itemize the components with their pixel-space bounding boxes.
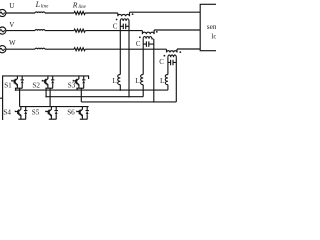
switch S3 IGBT: [73, 76, 79, 88]
wire T1 primary right down: [128, 21, 130, 97]
svg-text:R: R: [72, 0, 78, 9]
switch S6 diode: [86, 107, 89, 120]
resistor Rline V: [74, 29, 85, 32]
inductor L2: [141, 75, 144, 85]
capacitor C3 leads: [168, 61, 176, 63]
inductor L3: [165, 75, 168, 85]
S2 cell bottom wire: [45, 87, 53, 89]
switch S2 diode: [51, 76, 54, 88]
AC source V: [0, 27, 6, 34]
T2 secondary dot: [156, 31, 158, 33]
wire T3 to load box: [177, 48, 200, 50]
inductor Lline W: [35, 48, 45, 49]
capacitor C3 plates: [171, 60, 173, 65]
S4 cell bottom wire: [18, 118, 26, 120]
svg-text:L: L: [135, 76, 140, 85]
svg-text:S4: S4: [3, 108, 11, 116]
capacitor C2 leads: [143, 43, 154, 45]
wire T1 primary left down: [119, 21, 121, 75]
wire T2 to load box: [154, 29, 200, 31]
wire W to transformer T3: [85, 48, 166, 50]
svg-text:line: line: [78, 5, 86, 10]
transformer T1 primary winding: [120, 19, 129, 21]
svg-text:L: L: [112, 76, 117, 85]
S1 cell bottom wire: [15, 87, 23, 89]
svg-text:S6: S6: [67, 108, 75, 116]
S3 drop to bus3: [80, 88, 82, 102]
inductor L1: [118, 75, 121, 85]
resistor Rline W: [74, 48, 85, 51]
switch S5 diode: [55, 107, 58, 120]
wire T3 primary left down: [167, 57, 169, 74]
wire: [45, 12, 74, 14]
stub left edge: [0, 97, 3, 99]
S6 cell bottom wire: [80, 118, 88, 120]
bus3: [81, 101, 176, 103]
switch S5 IGBT: [46, 107, 52, 120]
transformer T2 primary winding: [143, 37, 153, 39]
S3 stub to bus1: [76, 88, 78, 90]
svg-text:S2: S2: [32, 81, 40, 89]
transformer T3 primary winding: [168, 55, 176, 57]
transformer T1 series winding: [118, 12, 130, 16]
switch S1 IGBT: [12, 76, 18, 88]
wire: [45, 30, 74, 32]
wire U source to Lline: [6, 12, 35, 14]
T1 secondary dot: [132, 13, 134, 15]
AC source W: [0, 46, 6, 53]
S2 stub to bus2: [45, 88, 47, 97]
svg-text:U: U: [9, 2, 14, 10]
transformer T2 series winding: [142, 30, 154, 34]
wire V to transformer T2: [85, 30, 142, 32]
svg-text:L: L: [160, 76, 165, 85]
AC source U: [0, 9, 6, 16]
switch S6 IGBT: [77, 107, 83, 120]
S1 drop to rail2: [19, 88, 21, 106]
svg-text:L: L: [35, 0, 41, 9]
switch S4 diode: [24, 107, 27, 120]
svg-text:W: W: [9, 39, 16, 47]
junction dot T2right-bus3: [153, 101, 155, 103]
svg-text:S1: S1: [4, 81, 12, 89]
inductor Lline U: [35, 12, 45, 13]
input rail row1: [3, 76, 89, 120]
wire: [45, 48, 74, 50]
wire T1 to load box: [130, 11, 201, 13]
svg-text:S3: S3: [68, 81, 76, 89]
S3 cell bottom wire: [76, 87, 84, 89]
junction dot L1-bus1: [120, 89, 122, 91]
wire T2 primary left down: [142, 39, 144, 75]
wire V source to Lline: [6, 30, 35, 32]
svg-text:load: load: [211, 32, 216, 41]
switch S4 IGBT: [15, 107, 21, 120]
bus1: [16, 89, 168, 91]
S2 drop to rail2: [49, 88, 51, 106]
svg-text:C: C: [159, 58, 164, 66]
svg-text:V: V: [9, 21, 14, 29]
capacitor C2 plates: [146, 41, 148, 47]
T3 primary dot: [164, 55, 166, 57]
resistor Rline U: [74, 12, 85, 15]
T2 primary dot: [139, 36, 141, 38]
wire T2 primary right down: [153, 39, 155, 102]
switch S1 diode: [21, 76, 24, 88]
svg-text:sensitive: sensitive: [207, 22, 216, 31]
T1 primary dot: [116, 19, 118, 21]
wire L2 to bus2: [142, 85, 144, 97]
rail2: [20, 106, 89, 108]
svg-text:S5: S5: [32, 108, 40, 116]
bus2: [46, 96, 143, 98]
inductor Lline V: [35, 30, 45, 31]
svg-text:C: C: [136, 40, 141, 48]
wire U to transformer T1: [85, 12, 118, 14]
wire W source to Lline: [6, 48, 35, 50]
junction dot T1right-bus2: [128, 96, 130, 98]
capacitor C1 plates: [123, 24, 125, 30]
transformer T3 series winding: [167, 49, 178, 53]
capacitor C1 leads: [120, 25, 129, 27]
T3 secondary dot: [179, 51, 181, 53]
wire L1 to bus1: [119, 85, 121, 90]
svg-text:C: C: [113, 22, 118, 30]
load box: [200, 4, 240, 50]
wire T3 primary right down: [175, 57, 177, 102]
switch S2 IGBT: [42, 76, 48, 88]
switch S3 diode: [82, 76, 85, 88]
S5 cell bottom wire: [49, 118, 57, 120]
wire L3 to bus1: [167, 85, 169, 90]
svg-text:line: line: [41, 5, 49, 10]
S1 stub to bus1: [15, 88, 17, 90]
